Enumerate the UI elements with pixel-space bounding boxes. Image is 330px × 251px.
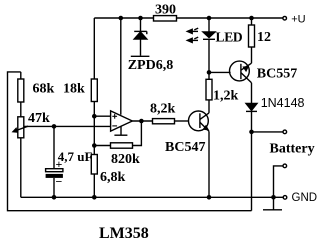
wire 12 to BC557 emitter: [251, 47, 253, 63]
op-amp U1 LM358: [111, 111, 133, 135]
wire outer bottom rail: [8, 72, 252, 211]
wire BC557 collector down: [251, 83, 253, 104]
wire 68k to pot: [20, 102, 22, 117]
wire battery- to gnd node: [274, 166, 284, 197]
resistor 6,8k: [91, 155, 125, 186]
wire top rail right: [177, 17, 252, 19]
wire battery+: [252, 131, 284, 133]
transistor Q1 BC547: [189, 111, 210, 131]
wire BC557 base: [209, 71, 231, 73]
LED D1: [203, 18, 215, 72]
svg-text:+U: +U: [291, 13, 305, 25]
wire GND stub: [274, 196, 284, 198]
wire opamp V+ riser: [120, 18, 122, 115]
wire colD mid (18k to 6.8k): [93, 102, 95, 155]
resistor 390: [154, 3, 177, 22]
resistor 12: [249, 25, 272, 47]
wire colI down to outer rail: [251, 132, 253, 211]
wire pot bottom to rail: [20, 138, 22, 198]
resistor 1,2k: [206, 79, 239, 103]
svg-text:−: −: [56, 175, 63, 189]
wire +U stub: [252, 17, 284, 19]
wire colD vertical top (rail to 18k): [93, 18, 95, 79]
resistor 18k: [63, 79, 97, 102]
wire 1,2k bottom to collector: [208, 100, 210, 113]
wire 12 column top: [251, 18, 253, 25]
wire 8,2k to BC547 base: [175, 120, 189, 122]
svg-text:47k: 47k: [28, 111, 50, 126]
svg-text:390: 390: [155, 3, 176, 18]
terminal GND circle: [283, 196, 287, 200]
svg-text:6,8k: 6,8k: [100, 170, 126, 185]
LED arrows: [187, 28, 198, 42]
wire colD bottom (6.8k to rail): [93, 174, 95, 197]
zener ZPD6,8: [134, 18, 147, 56]
ground symbol at GND: [263, 197, 282, 210]
svg-text:12: 12: [257, 30, 271, 45]
terminal battery- circle: [283, 164, 287, 168]
svg-text:820k: 820k: [111, 152, 140, 167]
wire 820k to node: [94, 145, 110, 147]
svg-text:BC547: BC547: [165, 140, 205, 155]
svg-text:68k: 68k: [33, 82, 55, 97]
wire 1N4148 to battery+ junction: [251, 111, 253, 131]
wire inner bottom rail: [21, 196, 274, 198]
wire pot wiper to opamp inverting input: [24, 125, 111, 127]
svg-text:LM358: LM358: [99, 225, 149, 242]
svg-text:BC557: BC557: [257, 66, 297, 81]
wire 1,2k junction to BC547 collector: [208, 72, 210, 79]
svg-text:8,2k: 8,2k: [150, 101, 176, 116]
svg-text:Battery: Battery: [270, 141, 315, 156]
wire top rail left: [94, 17, 153, 19]
diode 1N4148: [246, 104, 257, 112]
svg-text:LED: LED: [216, 29, 243, 44]
svg-text:GND: GND: [292, 192, 318, 204]
wire BC547 emitter down: [208, 131, 210, 197]
resistor 820k: [111, 143, 141, 167]
svg-text:18k: 18k: [63, 82, 85, 97]
svg-text:ZPD6,8: ZPD6,8: [128, 58, 174, 73]
potentiometer 47k: [13, 111, 50, 138]
wire opamp output: [132, 120, 152, 122]
svg-text:1,2k: 1,2k: [213, 89, 239, 104]
ground bar under zener: [131, 55, 150, 57]
terminal battery+ circle: [283, 130, 287, 134]
resistor 68k: [18, 72, 55, 102]
capacitor 4,7uF: [46, 126, 93, 197]
svg-text:4,7 uF: 4,7 uF: [58, 149, 93, 164]
terminal +U circle: [283, 16, 287, 20]
resistor 8,2k: [150, 101, 176, 123]
svg-text:1N4148: 1N4148: [261, 96, 305, 110]
wire feedback riser: [133, 121, 142, 146]
transistor Q2 BC557: [230, 61, 252, 83]
wire opamp + input: [94, 115, 110, 117]
